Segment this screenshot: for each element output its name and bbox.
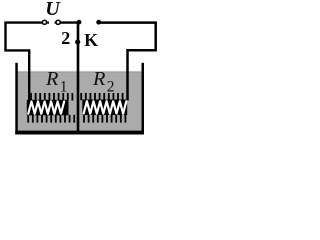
wire: center vertical from junction down between beakers — [77, 22, 80, 131]
resistor R1 top lead ticks — [31, 93, 72, 101]
svg-text:2: 2 — [107, 78, 115, 95]
junction dot on center wire (node 2) — [75, 39, 80, 44]
label R1 — [45, 68, 68, 95]
svg-text:K: K — [84, 30, 98, 50]
wire: from right terminal to junction — [60, 21, 79, 23]
label R2 — [92, 68, 115, 95]
resistor R2 bottom lead ticks — [84, 115, 125, 123]
resistor R1 bottom lead ticks — [28, 115, 74, 123]
beaker bottom — [15, 131, 144, 135]
label K — [84, 30, 98, 50]
beaker right wall — [142, 63, 145, 135]
junction node at switch fixed contact — [77, 20, 82, 25]
wire: right branch from switch to R2 lead — [101, 23, 156, 101]
label 2 — [61, 28, 70, 48]
svg-text:1: 1 — [60, 79, 68, 96]
label U — [45, 0, 61, 20]
svg-text:R: R — [92, 68, 106, 90]
beaker left wall — [15, 63, 17, 135]
svg-text:U: U — [45, 0, 61, 20]
wire: left branch from terminal to R1 lead — [6, 23, 43, 101]
resistor R1 heating element — [27, 100, 69, 116]
water in calorimeter — [17, 71, 142, 131]
resistor R2 top lead ticks — [81, 93, 122, 100]
resistor R2 heating element — [82, 100, 127, 116]
terminal circle left of U — [42, 20, 49, 24]
svg-text:R: R — [45, 68, 59, 90]
terminal circle right of U — [55, 20, 61, 24]
switch K pivot dot — [96, 20, 101, 25]
svg-text:2: 2 — [61, 28, 70, 48]
